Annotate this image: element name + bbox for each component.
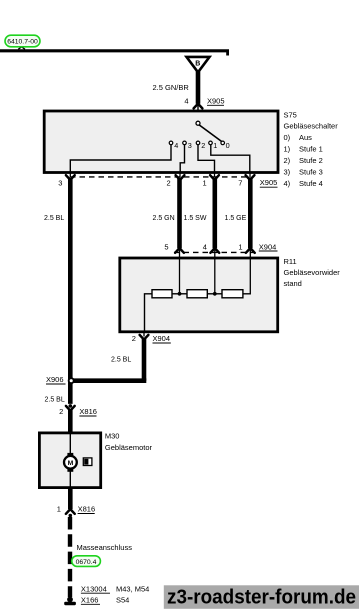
connector X905 pin 4 (fork) (194, 104, 203, 109)
svg-text:X904: X904 (153, 334, 171, 343)
pin labels R11 top (164, 242, 242, 251)
wire: X816 to M30 (68, 410, 73, 434)
connector X904 dashed line (174, 251, 255, 253)
resistor element 2 (187, 290, 207, 298)
wire: 2.5 BL from R11 pin 2 down (142, 338, 147, 381)
svg-text:0): 0) (284, 133, 291, 142)
connector X816 pin 1 (pin tip) (69, 514, 73, 518)
svg-text:B: B (195, 61, 200, 68)
svg-text:X905: X905 (207, 96, 225, 105)
svg-text:X166: X166 (81, 595, 99, 604)
wire: lead r1-r2 (172, 293, 187, 295)
contact 4 (169, 141, 173, 145)
wire: 1.5 GE pin7 to R11 pin1 (248, 179, 253, 249)
wire: horizontal joint to X906 (70, 378, 146, 383)
svg-text:2: 2 (59, 407, 63, 416)
label X904 bottom (153, 334, 171, 343)
svg-text:S75: S75 (284, 111, 297, 120)
svg-text:Aus: Aus (299, 133, 312, 142)
pin line R11 pin 2 (143, 332, 145, 337)
wire: bus end hook (226, 51, 229, 56)
switch arm to position 0 (199, 125, 221, 141)
svg-text:Gebläsemotor: Gebläsemotor (105, 443, 153, 452)
svg-text:0670.4: 0670.4 (76, 559, 97, 566)
svg-text:3): 3) (284, 168, 291, 177)
node: page reference link 6410.7-00 (5, 35, 40, 47)
label M30 (105, 432, 153, 452)
wire: M30 to X816 pin 1 (68, 488, 73, 510)
motor terminal bottom (67, 467, 73, 471)
svg-text:2: 2 (201, 141, 205, 150)
svg-text:X905: X905 (260, 178, 278, 187)
label X166 (81, 595, 129, 604)
pin labels S75 bottom (58, 178, 242, 187)
svg-text:2.5 BL: 2.5 BL (44, 215, 64, 222)
label X904 top (259, 242, 278, 251)
wire: contact 1 to pin 7 (211, 145, 250, 172)
svg-text:4: 4 (184, 96, 188, 105)
suppressor icon (83, 458, 92, 466)
node: ground link 0670.4 (72, 556, 101, 567)
svg-text:1: 1 (57, 505, 61, 514)
svg-text:z3-roadster-forum.de: z3-roadster-forum.de (167, 586, 356, 608)
svg-text:Stufe 2: Stufe 2 (299, 156, 323, 165)
junction dot 2 (213, 292, 217, 296)
svg-text:Stufe 1: Stufe 1 (299, 145, 323, 154)
svg-text:2.5 GN/BR: 2.5 GN/BR (153, 83, 190, 92)
svg-text:2: 2 (132, 334, 136, 343)
label X816 upper (79, 407, 97, 416)
node: page link caret on bus (18, 47, 25, 49)
wire: resistor chain leads (145, 294, 153, 331)
label R11 legend (284, 257, 341, 288)
svg-text:3: 3 (58, 178, 62, 187)
svg-text:1: 1 (203, 178, 207, 187)
wire: contact 2 to pin 1 (198, 145, 215, 172)
svg-text:2: 2 (167, 178, 171, 187)
svg-text:2): 2) (284, 156, 291, 165)
contact 2 (196, 141, 200, 145)
connector X816 pin 1 (fork) (66, 509, 75, 514)
svg-text:2.5 GN: 2.5 GN (153, 215, 175, 222)
label X905 bottom (260, 178, 278, 187)
resistor element 1 (152, 290, 172, 298)
svg-text:6410.7-00: 6410.7-00 (7, 39, 38, 46)
pin line S75 pin 1 (214, 172, 216, 178)
wire: lead r2-r3 (207, 293, 222, 295)
wire: pin line into S75 (197, 105, 199, 124)
svg-text:Gebläsevorwider: Gebläsevorwider (284, 268, 341, 277)
wire: 2.5 GN pin2 to R11 pin5 (177, 179, 182, 249)
svg-text:4): 4) (284, 179, 291, 188)
connector fork pin 1 (210, 175, 219, 180)
connector fork R11 pin 5 (175, 248, 184, 253)
junction dot 1 (178, 292, 182, 296)
wire: 2.5 BL from S75 pin 3 down to X906 (68, 179, 73, 404)
svg-text:X13004: X13004 (81, 584, 107, 593)
contact 3 (183, 141, 187, 145)
contact labels (174, 141, 229, 150)
svg-text:1: 1 (238, 242, 242, 251)
svg-text:2.5 BL: 2.5 BL (45, 396, 65, 403)
svg-text:1.5 SW: 1.5 SW (184, 215, 207, 222)
switch pivot (196, 121, 200, 125)
resistor element 3 (222, 290, 243, 298)
svg-text:S54: S54 (116, 595, 129, 604)
wire: power bus 30 (0, 49, 229, 52)
wire: dashed ground wire (68, 517, 72, 597)
connector X816 pin 2 (pin tip) (69, 404, 73, 408)
label X13004 (81, 584, 149, 593)
pin line S75 pin 2 (179, 172, 181, 178)
node X906 (69, 378, 74, 383)
svg-text:Stufe 4: Stufe 4 (299, 179, 323, 188)
svg-text:stand: stand (284, 279, 302, 288)
resistor pack R11 box (120, 258, 278, 332)
connector X905 dashed line (70, 176, 250, 178)
wire: 1.5 SW pin1 to R11 pin4 (213, 179, 218, 249)
svg-text:1): 1) (284, 145, 291, 154)
connector fork pin 3 (66, 175, 75, 180)
svg-text:X816: X816 (79, 407, 97, 416)
pin line R11 pin 5 (179, 249, 181, 294)
wire: through M30 (69, 434, 71, 487)
svg-text:X906: X906 (46, 375, 64, 384)
svg-text:7: 7 (238, 178, 242, 187)
pin line S75 pin 7 (249, 172, 251, 178)
wire: 2.5 GN/BR from B to S75 pin 4 (196, 72, 201, 104)
label X816 lower (78, 505, 96, 514)
connector fork R11 pin 4 (210, 248, 219, 253)
svg-text:4: 4 (203, 242, 207, 251)
watermark band (164, 585, 359, 609)
switch S75 box (44, 111, 278, 173)
node B: voltage supply triangle (187, 57, 210, 72)
contact 1 (209, 141, 213, 145)
svg-text:X904: X904 (259, 242, 277, 251)
connector fork R11 pin 1 (246, 248, 255, 253)
pin line S75 pin 3 (69, 172, 71, 178)
svg-text:R11: R11 (284, 257, 297, 266)
connector fork R11 pin 2 (140, 335, 149, 340)
svg-text:2.5 BL: 2.5 BL (111, 356, 131, 363)
ground symbol (64, 597, 76, 606)
svg-text:M30: M30 (105, 432, 120, 441)
pin line R11 pin 1 with elbow (243, 249, 250, 294)
motor terminal top (67, 453, 73, 457)
svg-text:4: 4 (174, 141, 178, 150)
svg-text:X816: X816 (78, 505, 96, 514)
svg-text:0: 0 (226, 141, 230, 150)
svg-text:1.5 GE: 1.5 GE (225, 215, 247, 222)
connector fork pin 7 (246, 175, 255, 180)
svg-text:3: 3 (188, 141, 192, 150)
contact 0 (221, 141, 225, 145)
label X905 top (207, 96, 225, 105)
blower motor M30 box (39, 433, 100, 488)
connector X816 pin 2 (fork) (66, 406, 75, 411)
wire: contact 4 to pin 3 (70, 145, 171, 172)
svg-text:M43, M54: M43, M54 (116, 584, 149, 593)
svg-text:Stufe 3: Stufe 3 (299, 168, 323, 177)
svg-text:1: 1 (213, 141, 217, 150)
svg-text:5: 5 (164, 242, 168, 251)
connector fork pin 2 (176, 175, 185, 180)
pin line R11 pin 4 (214, 249, 216, 294)
svg-text:Gebläseschalter: Gebläseschalter (284, 122, 339, 131)
label X906 (46, 375, 66, 384)
motor M symbol (64, 456, 77, 469)
label S75 legend (284, 111, 339, 189)
svg-text:Masseanschluss: Masseanschluss (77, 543, 133, 552)
wire: contact 3 to pin 2 (180, 145, 184, 172)
svg-text:M: M (68, 460, 74, 467)
